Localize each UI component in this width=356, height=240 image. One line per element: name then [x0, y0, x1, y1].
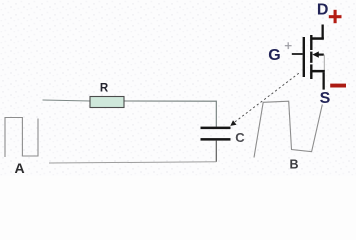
svg-text:B: B: [289, 158, 298, 172]
svg-text:R: R: [100, 83, 109, 95]
svg-text:A: A: [14, 160, 24, 176]
svg-text:S: S: [320, 90, 331, 107]
svg-text:C: C: [235, 130, 245, 145]
svg-text:D: D: [317, 2, 329, 19]
svg-text:G: G: [268, 47, 280, 64]
